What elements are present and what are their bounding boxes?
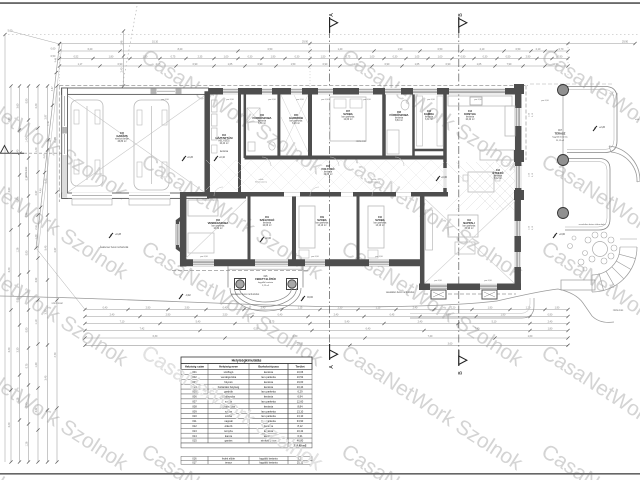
window vendegszoba bay [176,224,180,245]
svg-text:Terület: Terület [295,365,304,369]
section flag A top [329,17,331,33]
svg-text:TERASZ: TERASZ [555,131,566,135]
top dimension chain 1 (totals) [60,43,636,45]
svg-text:1,17: 1,17 [78,63,83,66]
terrace tier 2 [565,159,610,231]
svg-text:0,90: 0,90 [26,402,29,407]
svg-text:+0,00: +0,00 [559,234,566,236]
svg-text:fűtéscsatorna: fűtéscsatorna [255,181,268,184]
left dimension chains [10,86,12,462]
svg-text:3,60: 3,60 [8,187,11,192]
svg-text:1,80: 1,80 [548,328,553,331]
svg-text:zöldterület: zöldterület [356,140,367,143]
svg-text:szélfogó: szélfogó [224,370,234,374]
svg-text:2,05: 2,05 [156,63,161,66]
svg-text:pm 0,90: pm 0,90 [268,99,276,101]
svg-text:10,06 m²: 10,06 m² [262,224,271,227]
svg-text:1,90: 1,90 [446,314,451,317]
top exterior wall (heated part, dark) [205,88,521,95]
svg-text:+0,26: +0,26 [187,157,194,159]
svg-text:kerámia: kerámia [264,395,274,399]
svg-text:2,40: 2,40 [121,67,124,72]
svg-text:13,10: 13,10 [297,409,304,413]
column bases south [431,290,446,299]
svg-text:kerámia: kerámia [264,370,274,374]
nappali top wall stub [420,192,448,197]
nappali diagonals [425,199,514,283]
svg-text:0,90: 0,90 [17,297,20,302]
car 1 [71,100,103,186]
svg-text:folyosó: folyosó [224,380,233,384]
svg-text:0,50: 0,50 [506,56,511,59]
svg-text:0,90: 0,90 [258,63,263,66]
svg-text:011: 011 [192,419,197,423]
svg-text:009: 009 [192,409,197,413]
svg-text:2,30: 2,30 [338,307,343,310]
svg-text:10,06: 10,06 [297,370,304,374]
svg-text:6,31 m²: 6,31 m² [425,118,433,121]
svg-text:33,90: 33,90 [297,419,304,423]
vendegszoba left wall [180,192,187,267]
svg-text:kamra: kamra [225,434,233,438]
svg-text:FEDETT ELÕTÉR: FEDETT ELÕTÉR [255,278,276,281]
svg-text:1,10: 1,10 [26,288,29,293]
windows top wall [223,88,238,95]
entry door szelfogo [255,259,288,266]
svg-text:vasalatlan beton térburkolat: vasalatlan beton térburkolat [579,223,606,226]
svg-text:8,84: 8,84 [297,404,303,408]
car 2 [134,100,169,190]
svg-text:fűtéscsatorna: fűtéscsatorna [368,181,381,184]
svg-text:5,40: 5,40 [345,321,350,324]
svg-text:pm 0,90: pm 0,90 [427,99,435,101]
garden step rect [561,280,595,290]
svg-text:1,65: 1,65 [415,63,420,66]
svg-text:1,00: 1,00 [438,56,443,59]
svg-text:fagyálló kerámia: fagyálló kerámia [552,136,568,139]
svg-text:7,96: 7,96 [26,212,29,217]
svg-text:0,90: 0,90 [26,250,29,255]
svg-text:19,00: 19,00 [297,380,304,384]
svg-text:KONYHA: KONYHA [464,112,476,116]
svg-text:3,60: 3,60 [17,103,20,108]
svg-text:2,10: 2,10 [480,48,485,51]
svg-text:1,90: 1,90 [398,48,403,51]
svg-text:vendégszoba: vendégszoba [221,375,237,379]
svg-text:1,20: 1,20 [451,307,456,310]
svg-text:2,40: 2,40 [110,314,115,317]
svg-text:0,90: 0,90 [26,98,29,103]
svg-text:fedett előtér: fedett előtér [222,457,235,460]
patio south-east boundary [497,289,614,322]
svg-text:1,05: 1,05 [415,56,420,59]
svg-text:015: 015 [192,439,197,443]
svg-text:étkező: étkező [225,424,233,428]
east wall pilasters [514,84,524,94]
svg-text:1,10: 1,10 [35,319,38,324]
furdo906 left wall [244,93,247,158]
svg-text:13,10: 13,10 [297,414,304,418]
szoba909/910 wall [357,196,360,263]
porch columns [235,279,246,290]
svg-text:2,40: 2,40 [35,103,38,108]
svg-text:lam.parketta: lam.parketta [261,400,276,404]
svg-text:6,40: 6,40 [366,328,371,331]
svg-text:2,35: 2,35 [198,56,203,59]
svg-text:12,60 m²: 12,60 m² [343,118,352,121]
svg-text:5,22 m²: 5,22 m² [262,284,269,287]
svg-text:0,90: 0,90 [323,63,328,66]
svg-text:pm 0,90: pm 0,90 [226,99,234,101]
nappali right wall [514,196,521,290]
svg-text:0,75: 0,75 [270,321,275,324]
svg-text:1,00: 1,00 [370,56,375,59]
svg-text:1,60: 1,60 [528,335,533,338]
svg-text:fagyálló kerámia: fagyálló kerámia [259,457,278,460]
porch step arcs [240,288,292,302]
garage top window [157,90,175,92]
svg-text:10,44: 10,44 [297,385,304,389]
svg-text:3,30: 3,30 [17,347,20,352]
svg-text:3,02: 3,02 [35,277,38,282]
leader diagonal top-left [10,31,60,44]
svg-text:010: 010 [192,414,197,418]
nappali bottom wall [419,283,521,290]
svg-text:1,40: 1,40 [338,48,343,51]
svg-text:2,90: 2,90 [166,314,171,317]
svg-text:10,52: 10,52 [297,375,304,379]
svg-text:4,70: 4,70 [54,352,57,357]
svg-text:3,30: 3,30 [45,309,48,314]
svg-text:25,12 m²: 25,12 m² [556,139,565,142]
svg-text:7,40: 7,40 [428,335,433,338]
roof overhang dashes [59,85,528,87]
svg-text:fagyálló kerámia: fagyálló kerámia [259,461,278,464]
svg-text:kerámia: kerámia [220,150,229,153]
svg-text:2,40: 2,40 [548,321,553,324]
bottom total dimension [85,309,568,311]
garage top wall (light double line) [62,88,209,94]
svg-text:Helyiségkimutatás: Helyiségkimutatás [232,359,262,363]
level marks [260,237,264,242]
svg-text:13,10 m²: 13,10 m² [317,224,326,227]
svg-text:1,00: 1,00 [224,56,229,59]
nappali left wall [420,194,425,290]
svg-text:pm 0,90: pm 0,90 [200,256,208,258]
vendegszoba bay [178,217,184,252]
svg-text:-0,02: -0,02 [185,295,191,297]
svg-text:2,90: 2,90 [146,307,151,310]
porch side walls [227,266,229,288]
garage bottom wall (light double line) [62,193,209,198]
svg-text:pm 0,90: pm 0,90 [375,256,383,258]
tile hatch konyha-etkezo [446,161,516,211]
svg-text:1,40: 1,40 [26,137,29,142]
svg-text:SZOBA: SZOBA [317,218,326,222]
section flag B top [458,17,460,33]
konyha island [480,150,514,160]
svg-text:0,50: 0,50 [268,48,273,51]
svg-text:3,40: 3,40 [8,267,11,272]
gardrob hatch [281,95,308,152]
svg-text:10,52 m²: 10,52 m² [213,227,222,230]
svg-text:zöldterület: zöldterület [613,309,624,312]
furdo906 right wall [277,93,280,156]
svg-text:2,40: 2,40 [334,314,339,317]
kamra bottom wall [414,149,446,152]
svg-text:1,00: 1,00 [354,63,359,66]
szelfogo right wall [292,192,296,266]
svg-text:0,90: 0,90 [118,63,123,66]
door gap folyoso-etkezo [443,168,447,188]
svg-text:5,40: 5,40 [196,321,201,324]
svg-text:+2,26: +2,26 [599,127,606,129]
svg-text:3,45: 3,45 [45,375,48,380]
svg-text:±0,00: ±0,00 [307,297,313,299]
svg-text:+0,00: +0,00 [441,177,448,179]
section flag B bottom [458,350,460,366]
svg-text:0,75: 0,75 [171,56,176,59]
bed vendegszoba [188,200,218,216]
szoba907 right wall [382,93,386,158]
washers haztartasi [212,100,218,112]
svg-text:8,84 m²: 8,84 m² [395,119,403,122]
svg-text:7,10: 7,10 [120,321,125,324]
svg-text:6,29: 6,29 [297,390,303,394]
etkezo table [468,172,494,192]
door arcs corridor [310,187,319,196]
svg-text:8,12 m²: 8,12 m² [494,177,502,180]
svg-text:014: 014 [192,434,197,438]
svg-text:0,75: 0,75 [26,363,29,368]
svg-text:pm 0,90: pm 0,90 [296,99,304,101]
svg-text:0,90: 0,90 [558,56,563,59]
svg-text:konyha: konyha [224,429,233,433]
svg-text:0,30: 0,30 [295,56,300,59]
svg-text:0,30: 0,30 [293,335,298,338]
room schedule table [181,357,312,364]
svg-text:1,50: 1,50 [321,56,326,59]
svg-text:garázs: garázs [225,439,233,443]
svg-text:vasalatlan beton térburkolat: vasalatlan beton térburkolat [231,293,260,296]
svg-text:0,50: 0,50 [51,55,56,58]
gardrob right wall [308,91,312,158]
svg-text:10,10: 10,10 [152,41,159,44]
driveway vertical mini chain [123,31,125,86]
quarter annulus steps [592,247,637,292]
svg-text:pm 0,90: pm 0,90 [474,99,482,101]
svg-text:8,20: 8,20 [178,48,183,51]
east exterior wall (konyha/etkezo) [515,88,522,199]
svg-text:0,40: 0,40 [223,307,228,310]
lower rooms bottom wall [180,259,422,266]
left exterior wall garage (light double line) [62,88,68,198]
svg-text:+0,00: +0,00 [265,238,272,240]
svg-text:2,07: 2,07 [35,190,38,195]
svg-text:0,40: 0,40 [278,314,283,317]
svg-text:008: 008 [192,404,197,408]
svg-text:pm 0,90: pm 0,90 [311,256,319,258]
svg-text:pm 0,90: pm 0,90 [484,280,492,282]
svg-text:5,10: 5,10 [492,321,497,324]
svg-text:pm 0,90: pm 0,90 [161,99,169,101]
svg-text:zöldterület: zöldterület [25,166,28,177]
svg-text:0,90: 0,90 [385,63,390,66]
svg-text:2,07: 2,07 [54,247,57,252]
bed szoba 910 [368,206,384,248]
svg-text:1,40: 1,40 [35,147,38,152]
svg-text:Ásatlemez beton térburkolat: Ásatlemez beton térburkolat [100,246,129,249]
kamra right wall [443,91,447,196]
bath 008 fixtures [387,130,399,154]
svg-text:7,42: 7,42 [140,328,145,331]
furdo908 right wall [412,93,415,158]
svg-text:5,45: 5,45 [45,245,48,250]
svg-text:1,15: 1,15 [376,307,381,310]
svg-text:0,90: 0,90 [17,197,20,202]
svg-text:8,12: 8,12 [297,424,303,428]
svg-text:12,60: 12,60 [297,400,304,404]
svg-text:1,30: 1,30 [35,362,38,367]
svg-text:1,90: 1,90 [555,307,560,310]
svg-text:1,40: 1,40 [35,234,38,239]
svg-text:10,44 m²: 10,44 m² [219,142,228,145]
sofa nappali [448,215,478,237]
svg-text:0,58: 0,58 [254,328,259,331]
svg-text:Helyiség neve: Helyiség neve [219,365,238,369]
svg-text:0,50: 0,50 [516,48,521,51]
windows east wall [515,108,522,126]
svg-text:7,40: 7,40 [475,328,480,331]
top dimension chain 3 [60,58,569,60]
svg-text:0,30: 0,30 [483,56,488,59]
svg-text:2,90: 2,90 [526,56,531,59]
top dimension chain 4 [60,65,569,67]
guide dotted from chain to building [59,44,61,86]
section line B vertical [458,30,460,356]
svg-text:6,94: 6,94 [297,395,303,399]
section flag A bottom [329,344,331,360]
boundary slanted dimension chain [36,44,60,248]
svg-text:0,30: 0,30 [248,56,253,59]
svg-text:SZOBA: SZOBA [343,112,352,116]
bottom frame line [0,473,640,475]
svg-text:0,45: 0,45 [390,314,395,317]
svg-text:2,90: 2,90 [8,117,11,122]
svg-text:+0,28: +0,28 [115,234,122,236]
svg-text:1,28: 1,28 [26,441,29,446]
svg-text:0,50: 0,50 [438,48,443,51]
svg-text:012: 012 [192,424,197,428]
svg-text:3,40: 3,40 [8,347,11,352]
section line A vertical [329,30,331,350]
svg-text:lam.parketta: lam.parketta [261,390,276,394]
svg-text:0,52: 0,52 [74,56,79,59]
svg-text:0,75: 0,75 [346,56,351,59]
svg-text:1,90: 1,90 [501,314,506,317]
garage doors bottom [72,193,112,199]
svg-text:29,90: 29,90 [302,41,309,44]
svg-text:SZOBA: SZOBA [375,218,384,222]
rooms bottom wall / corridor top [245,156,447,160]
svg-text:13,10 m²: 13,10 m² [375,224,384,227]
svg-text:pm 0,90: pm 0,90 [541,100,549,102]
svg-text:0,30: 0,30 [393,56,398,59]
svg-text:0,90: 0,90 [193,63,198,66]
svg-text:2,97: 2,97 [45,114,48,119]
svg-text:0,40: 0,40 [103,307,108,310]
bath 006 fixtures [247,108,260,122]
patio south outline [410,298,534,318]
svg-text:2,40: 2,40 [261,307,266,310]
terrace quarter ring right [609,146,640,181]
svg-text:2,50: 2,50 [223,314,228,317]
svg-text:11,05: 11,05 [54,136,57,142]
corridor bottom wall [180,192,446,197]
svg-text:3,40: 3,40 [8,422,11,427]
svg-text:0,90: 0,90 [461,56,466,59]
corridor tile hatch [206,160,461,190]
svg-text:fagyálló kerámia: fagyálló kerámia [258,281,274,284]
svg-text:0,90: 0,90 [548,314,553,317]
svg-text:2,10: 2,10 [536,48,541,51]
svg-text:terasz: terasz [225,461,233,464]
svg-text:1,20: 1,20 [526,307,531,310]
svg-text:1,05: 1,05 [477,63,482,66]
svg-text:NAPPALI: NAPPALI [463,221,475,225]
corridor door gaps [284,192,300,196]
svg-text:3,02: 3,02 [35,407,38,412]
svg-text:6,56 m²: 6,56 m² [258,122,266,125]
windows nappali bottom [430,283,447,290]
svg-text:2,40: 2,40 [418,321,423,324]
svg-text:1,50: 1,50 [143,56,148,59]
boundary diagonal dotted [122,6,137,88]
svg-text:1,40: 1,40 [17,149,20,154]
svg-text:0,60: 0,60 [51,48,56,51]
svg-text:29,90: 29,90 [622,41,629,44]
svg-text:10,42: 10,42 [297,429,304,433]
svg-text:+0,10: +0,10 [219,157,226,159]
svg-text:0,90: 0,90 [554,63,559,66]
svg-text:7,90: 7,90 [507,63,512,66]
svg-text:1,80: 1,80 [109,56,114,59]
top dimension chain 2 [60,50,569,52]
svg-text:kerámia: kerámia [264,385,274,389]
svg-text:46,80 m²: 46,80 m² [117,140,126,143]
kitchen counter [448,96,512,106]
svg-text:0,70: 0,70 [559,48,564,51]
bed szoba 907 [330,97,366,141]
svg-text:016: 016 [192,457,197,460]
svg-text:2,90: 2,90 [185,307,190,310]
svg-text:vasalatlan beton térburkolat: vasalatlan beton térburkolat [386,291,415,294]
svg-text:1,28: 1,28 [17,397,20,402]
svg-text:6,20: 6,20 [88,48,93,51]
benchmark line left [0,152,24,154]
kamra shelves [417,96,423,146]
svg-text:1,65: 1,65 [228,63,233,66]
svg-text:lam.parketta: lam.parketta [261,375,276,379]
svg-text:0,90: 0,90 [26,327,29,332]
svg-text:017: 017 [192,461,197,464]
bed szoba 909 [299,206,315,248]
leader to bottom chains [36,248,85,310]
terrace columns [558,85,569,96]
left edge boundary line [4,35,6,463]
svg-text:5,45: 5,45 [45,178,48,183]
svg-text:1,90: 1,90 [271,56,276,59]
